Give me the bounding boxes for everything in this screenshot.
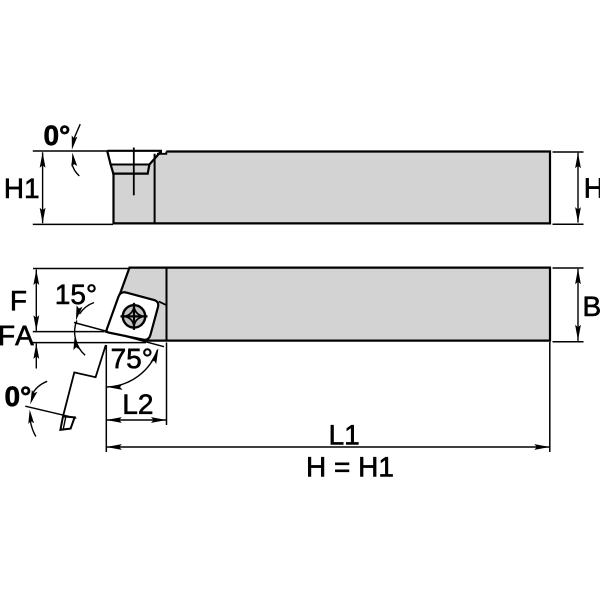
75deg arc <box>107 347 161 389</box>
dimension H1 <box>40 152 46 223</box>
shank outline top view <box>114 152 551 224</box>
shank body top view <box>114 152 551 224</box>
dimension F <box>33 270 39 331</box>
pocket back vertical line <box>154 154 156 223</box>
insert pocket seat (grey trapezoid lower part) <box>111 165 150 174</box>
screw head <box>121 303 148 330</box>
leader line <box>74 124 80 138</box>
insert right edge <box>148 152 161 174</box>
label 0deg (lower) <box>6 386 30 406</box>
FA bottom line <box>31 342 147 344</box>
H right extension lines <box>553 151 584 153</box>
insert tip projection inner line <box>63 417 66 430</box>
label H1 <box>6 179 38 198</box>
dimension FA arrow <box>33 343 39 368</box>
pocket bottom line <box>112 173 148 175</box>
H1 bottom extension line <box>33 223 113 225</box>
15deg annotation <box>72 303 94 356</box>
0deg annotation (top view) <box>69 124 80 176</box>
label L2 <box>125 394 152 414</box>
L2 right extension line <box>166 343 168 426</box>
insert (front view, rounded quad rotated ~15deg) <box>107 292 159 340</box>
label H = H1 <box>308 457 392 476</box>
dimension B <box>575 269 581 341</box>
label B <box>585 297 600 316</box>
below arrow <box>70 152 78 167</box>
B right extension lines <box>553 267 584 269</box>
dimension L2 <box>106 417 166 423</box>
label 15deg <box>57 284 96 304</box>
pocket back line front view <box>166 268 168 341</box>
15deg cutting edge line <box>74 323 164 347</box>
label L1 <box>331 425 358 444</box>
label F <box>12 291 26 310</box>
pocket top line <box>159 302 167 306</box>
insert inner line <box>111 164 150 166</box>
label 0deg (top) <box>45 125 69 145</box>
insert top-view (white trapezoid) <box>107 151 161 165</box>
dimension L1 <box>106 444 550 450</box>
H1 top extension line / 0deg reference <box>33 150 107 152</box>
label FA <box>0 326 33 345</box>
dimension H <box>575 153 581 223</box>
0deg annotation (lower) <box>27 381 47 436</box>
F top extension line <box>33 268 129 270</box>
tip horizontal line <box>33 331 105 333</box>
label H <box>586 178 600 197</box>
label 75deg <box>112 349 151 369</box>
shank body front view <box>106 268 550 341</box>
insert tip projection quad <box>60 416 74 429</box>
0deg reference line (lower) <box>25 406 76 418</box>
head outline projection zigzag <box>63 345 106 416</box>
pocket top cutout line <box>157 152 166 154</box>
insert left edge <box>107 151 113 174</box>
L2/L1 left extension line (from tip) <box>105 345 107 452</box>
L1 right extension line <box>549 342 551 452</box>
screw axis center line <box>133 148 135 196</box>
insert outline top edge <box>107 151 161 154</box>
